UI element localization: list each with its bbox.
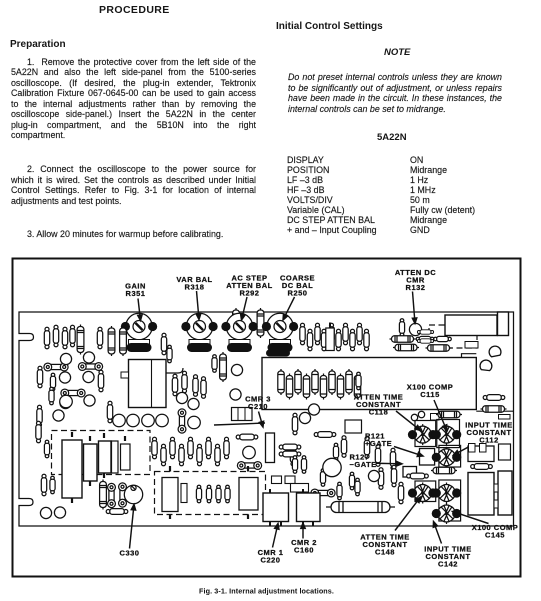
capacitor: [416, 336, 434, 341]
resistor: [391, 465, 396, 487]
svg-text:C118: C118: [369, 408, 389, 417]
label R318: [176, 275, 212, 292]
C118 trimmer: [414, 424, 431, 445]
transistor Q: [60, 353, 71, 364]
resistor: [44, 440, 49, 458]
dashed box left: [52, 431, 151, 475]
svg-text:C220: C220: [261, 556, 281, 565]
dashed box bottom: [155, 472, 266, 515]
label C210: [245, 395, 271, 412]
label C160: [291, 538, 317, 555]
transistor can Q big: [323, 458, 341, 476]
jumper link: [311, 489, 335, 497]
connector stub: [494, 484, 498, 492]
black bar under R250: [266, 350, 290, 357]
potentiometer R250: [267, 313, 293, 339]
resistor: [292, 456, 297, 474]
transistor Q: [243, 446, 256, 459]
long capacitor C?: [77, 325, 84, 355]
label R351: [125, 282, 146, 299]
svg-text:Fig. 3-1. Internal adjustment: Fig. 3-1. Internal adjustment locations.: [199, 587, 334, 596]
resistor: [378, 468, 383, 490]
arrow to R292: [241, 297, 247, 320]
label C220: [258, 548, 284, 565]
resistor: [182, 371, 187, 393]
dots C142 trimmer: [432, 488, 462, 497]
svg-text:C115: C115: [420, 390, 440, 399]
transistor Q: [368, 470, 379, 481]
resistor: [390, 448, 395, 470]
transistor Q: [299, 412, 310, 423]
capacitor C220: [263, 493, 289, 522]
transistor Q: [308, 404, 319, 415]
pot bracket R351: [129, 340, 150, 348]
pot bracket R292: [229, 340, 250, 348]
relay K1 box: [129, 360, 167, 408]
resistor row top-left: [44, 327, 49, 349]
resistor: [107, 401, 112, 423]
box: [345, 420, 362, 433]
resistor: [364, 437, 369, 459]
resistor rows bottom-center: [152, 437, 157, 459]
small rect above caps: [431, 414, 440, 421]
resistor: [212, 355, 217, 373]
resistor: [301, 456, 306, 474]
transistor Q: [113, 414, 126, 427]
resistor: [206, 485, 211, 503]
resistor row in shield: [278, 369, 284, 395]
arrow to R121: [394, 447, 423, 457]
tall rect: [266, 433, 275, 463]
arrow to R318: [196, 291, 200, 320]
R121 box: [420, 449, 435, 466]
resistor R big: [326, 502, 395, 513]
label R121: [365, 432, 392, 449]
transistor Q: [156, 414, 169, 427]
resistor between pots: [167, 345, 172, 363]
resistor right edge: [417, 330, 433, 334]
connector top right: [498, 312, 509, 336]
C142 trimmer: [438, 483, 455, 504]
potentiometer R292: [226, 313, 252, 339]
transistor Q: [230, 389, 241, 400]
small rect: [285, 476, 295, 484]
module: [498, 471, 512, 515]
dots C148 trimmer: [408, 488, 438, 497]
potentiometer R351: [126, 313, 152, 339]
resistor: [50, 373, 55, 391]
C145 trimmer: [438, 503, 455, 524]
resistor: [337, 482, 342, 500]
capacitor C160: [297, 493, 321, 522]
transistor Q: [188, 398, 199, 409]
capacitor big: [239, 478, 258, 511]
arrow to C330: [130, 505, 136, 549]
shield box center: [262, 358, 476, 410]
svg-text:R292: R292: [240, 289, 260, 298]
resistor: [97, 327, 102, 349]
label C330: [120, 549, 140, 558]
resistor: [37, 405, 42, 427]
resistor: [41, 474, 46, 496]
resistor: [349, 472, 354, 490]
arrow to C220: [273, 524, 279, 548]
dots C112 trimmer: [432, 453, 462, 462]
svg-text:−GATE: −GATE: [350, 460, 377, 469]
resistor: [290, 444, 295, 466]
transistor Q: [84, 395, 95, 406]
resistor: [49, 387, 54, 405]
jumper link: [61, 389, 85, 397]
R127 box: [403, 467, 417, 478]
resistor: [390, 336, 416, 342]
solder pad: [480, 360, 492, 371]
right column: [276, 21, 383, 32]
resistor right edge: [417, 339, 433, 343]
resistor: [375, 445, 380, 467]
capacitor C big: [121, 444, 131, 470]
arrow to C118: [396, 411, 421, 431]
capacitor C big: [84, 444, 98, 481]
svg-text:R132: R132: [406, 283, 426, 292]
resistor: [50, 476, 55, 494]
capacitor behind R292 right: [257, 308, 264, 338]
transistor Q: [53, 410, 64, 421]
pot bracket R250: [270, 340, 291, 348]
resistor: [106, 509, 128, 515]
resistor: [314, 432, 336, 438]
label R132: [395, 268, 436, 292]
label C145: [472, 523, 519, 540]
paragraph 3: [11, 229, 223, 240]
svg-text:R250: R250: [288, 289, 308, 298]
mounting dots R292: [221, 322, 230, 331]
dots C115 trimmer: [432, 430, 462, 439]
label C118: [354, 393, 403, 417]
resistor: [279, 444, 301, 450]
arrow to C142: [433, 522, 441, 544]
capacitor: [434, 336, 452, 341]
mounting dots R351: [121, 322, 130, 331]
resistor: [201, 377, 206, 399]
resistor: [36, 421, 41, 443]
label C112: [465, 421, 513, 445]
resistor: [398, 482, 403, 504]
transistor Q: [60, 395, 73, 408]
pad circles: [40, 507, 65, 519]
label R250: [280, 274, 315, 298]
pad circles above caps: [411, 411, 424, 420]
resistor between pots: [161, 333, 166, 355]
capacitor cluster near C330: [100, 480, 107, 510]
resistor: [333, 443, 338, 461]
jumper: [237, 462, 261, 470]
resistor row center-top: [300, 323, 305, 345]
svg-text:C148: C148: [375, 548, 395, 557]
transistor Q: [231, 364, 242, 375]
mounting dots R318: [181, 322, 190, 331]
module: [468, 446, 494, 462]
jumper link: [44, 363, 68, 371]
resistor: [407, 473, 429, 479]
arrow to R250: [283, 297, 295, 320]
svg-text:+GATE: +GATE: [365, 439, 392, 448]
resistor: [431, 467, 457, 473]
transistor Q: [188, 416, 201, 429]
board step edge: [462, 354, 477, 358]
arrow to C148: [395, 497, 421, 531]
paragraph 2: [11, 164, 256, 175]
cap bank frames: [415, 421, 436, 447]
label C148: [360, 533, 409, 557]
arrow to C115: [434, 400, 447, 431]
svg-text:C160: C160: [294, 546, 314, 555]
resistor: [341, 436, 346, 458]
C115 trimmer: [438, 424, 455, 445]
resistor in notch: [483, 395, 505, 401]
label C115: [407, 383, 454, 400]
small rect: [499, 415, 511, 420]
resistor: [172, 374, 177, 396]
resistor: [236, 434, 258, 440]
capacitor: [399, 319, 404, 337]
circuit board outline: [19, 312, 514, 526]
capacitor big: [162, 478, 178, 512]
resistor: [471, 464, 493, 470]
transistor Q: [59, 372, 70, 383]
arrow to R351: [138, 299, 142, 321]
transistor Q: [176, 392, 187, 403]
svg-text:R318: R318: [185, 283, 205, 292]
pins: [71, 432, 73, 437]
potentiometer R132 ATTEN DC CMR: [409, 323, 421, 335]
arrow to C210: [259, 412, 264, 428]
figure frame: [13, 259, 521, 577]
C112 trimmer: [438, 447, 455, 468]
resistor: [216, 485, 221, 503]
resistor: [393, 344, 419, 350]
label R292: [226, 274, 272, 298]
electrolytic C: [326, 328, 334, 351]
jumper link: [78, 363, 102, 371]
transistor Q: [83, 371, 94, 382]
capacitor: [356, 372, 361, 390]
resistor: [355, 478, 360, 496]
small rect: [465, 342, 478, 349]
long capacitor: [108, 326, 115, 356]
capacitor behind R292: [233, 308, 240, 338]
svg-text:C330: C330: [120, 549, 140, 558]
pins C220 C160: [270, 489, 313, 526]
resistor: [193, 375, 198, 397]
trimmer C330: [124, 485, 142, 504]
arrow to C145: [453, 511, 489, 523]
svg-text:C145: C145: [485, 531, 505, 540]
resistor: [292, 413, 297, 435]
resistor: [37, 366, 42, 388]
resistor: [426, 345, 452, 351]
long capacitor: [120, 326, 127, 356]
jumper vertical: [178, 409, 186, 433]
arrow to C112: [454, 444, 475, 455]
resistor: [225, 485, 230, 503]
wire: [214, 423, 265, 425]
small rect: [291, 484, 309, 493]
svg-text:C142: C142: [438, 560, 458, 569]
transistor Q: [60, 397, 71, 408]
C148 trimmer: [414, 483, 431, 504]
capacitor C big: [112, 441, 119, 473]
resistor: [98, 370, 103, 392]
resistor: [320, 469, 325, 487]
dots C145 trimmer: [432, 509, 462, 518]
small rect: [469, 444, 476, 453]
relay pins: [121, 372, 129, 378]
pins dashed box: [169, 466, 171, 472]
potentiometer R318: [186, 313, 212, 339]
arrow to R132: [412, 292, 416, 324]
resistor: [279, 451, 301, 457]
small rect: [181, 484, 187, 503]
mounting dots R250: [262, 322, 271, 331]
capacitor: [220, 352, 227, 382]
dashed shield C115 area: [429, 325, 477, 348]
module small: [499, 444, 511, 460]
small rect: [272, 476, 282, 484]
transistor Q: [83, 352, 94, 363]
capacitor above caps: [436, 411, 462, 417]
connector stub: [494, 500, 498, 508]
trimmer C210 body: [232, 408, 253, 421]
module: [468, 473, 494, 516]
arrow to C160: [301, 523, 305, 539]
arrow to R127: [377, 461, 403, 465]
pot bracket R318: [189, 340, 210, 348]
dots C118 trimmer: [408, 430, 438, 439]
capacitor C big: [99, 441, 112, 473]
big module top right: [445, 315, 497, 336]
svg-text:R351: R351: [126, 289, 146, 298]
label C142: [424, 545, 472, 569]
resistor: [196, 485, 201, 503]
small rect: [480, 444, 487, 453]
capacitor: [481, 406, 507, 412]
transistor Q: [127, 414, 140, 427]
paragraph 1: [11, 57, 256, 68]
capacitor C big: [62, 440, 82, 498]
solder pad: [489, 346, 501, 357]
label R127: [350, 453, 377, 470]
transistor Q: [142, 414, 155, 427]
